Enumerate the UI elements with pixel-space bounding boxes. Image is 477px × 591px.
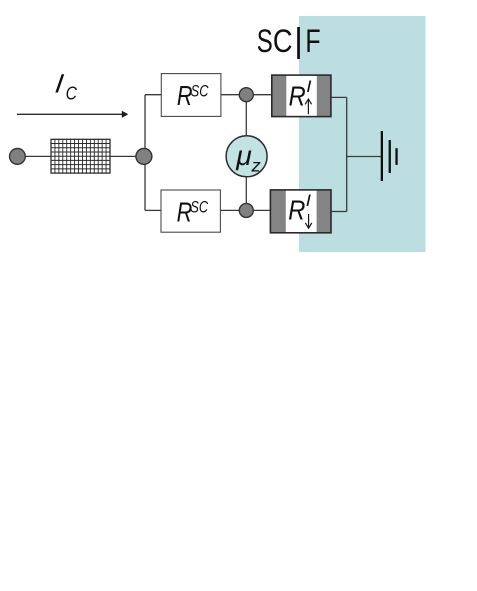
svg-text:R: R [289, 82, 306, 112]
svg-text:I: I [306, 77, 311, 96]
svg-text:F: F [305, 24, 320, 60]
svg-text:I: I [306, 191, 311, 210]
svg-text:C: C [66, 82, 78, 104]
svg-text:SC: SC [191, 82, 209, 101]
svg-text:z: z [250, 156, 260, 176]
svg-text:C: C [273, 24, 293, 60]
svg-text:R: R [288, 196, 305, 226]
svg-text:|: | [294, 22, 303, 60]
svg-text:S: S [257, 22, 273, 58]
svg-text:I: I [53, 68, 65, 98]
svg-text:SC: SC [190, 198, 208, 217]
svg-text:μ: μ [235, 140, 252, 170]
